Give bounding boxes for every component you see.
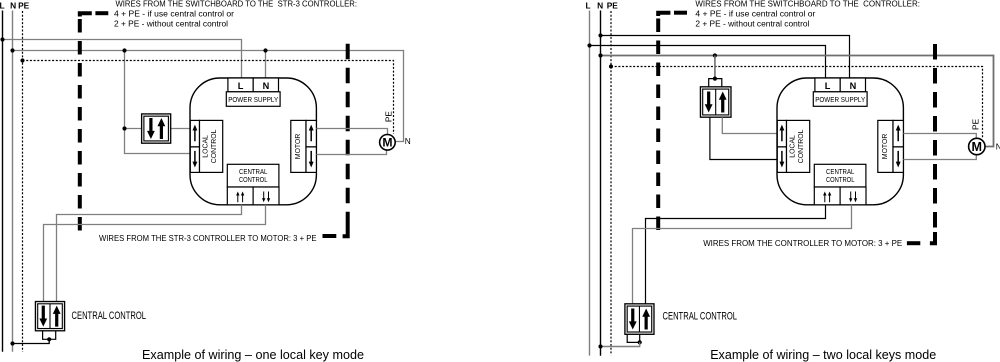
U1 STR-3 LOCAL CONTROL up terminal: [190, 120, 199, 146]
svg-text:2 + PE - without central contr: 2 + PE - without central control: [695, 18, 809, 28]
wire L supply vertical (left): [2, 11, 4, 352]
U1 STR-3 CENTRAL CONTROL up terminal: [227, 187, 253, 205]
motor M1: [380, 135, 396, 151]
svg-text:CONTROL: CONTROL: [211, 129, 218, 163]
U2 MOTOR down terminal: [893, 147, 903, 173]
wire S4 to N (right): [601, 342, 640, 346]
thick dashed bottom dash (right): [907, 241, 920, 245]
U1 STR-3 MOTOR up terminal: [306, 120, 316, 146]
thick dashed legend dash (left): [95, 11, 108, 15]
wire L branch to controller L terminal (right): [590, 46, 826, 79]
U2 CENTRAL CONTROL down terminal: [840, 187, 866, 205]
svg-text:WIRES FROM THE STR-3 CONTROLLE: WIRES FROM THE STR-3 CONTROLLER TO MOTOR…: [99, 233, 317, 243]
svg-text:WIRES FROM THE SWITCHBOARD TO: WIRES FROM THE SWITCHBOARD TO THE STR-3 …: [116, 0, 358, 8]
wire central down to switch (left): [44, 205, 266, 302]
controller U1 STR-3 body: [190, 78, 316, 205]
junction dot PE branch (right): [609, 64, 613, 68]
svg-text:N: N: [850, 81, 857, 91]
wire central up to switch (left): [57, 205, 242, 302]
U2 LOCAL CONTROL down terminal: [777, 147, 786, 173]
switch S3 top tab: [709, 79, 722, 87]
junction dot PE branch (left): [20, 58, 24, 62]
junction dot local keys feed (right): [713, 53, 717, 57]
junction dot local key switch (left): [122, 126, 126, 130]
wire L supply vertical (right): [589, 11, 591, 356]
svg-text:Example of wiring – two local: Example of wiring – two local keys mode: [710, 347, 936, 362]
thick dashed boundary corner top (left): [80, 13, 92, 16]
thick dashed boundary corner bottom (right): [930, 232, 935, 243]
switch S2 bottom tab: [43, 331, 56, 340]
switch S4 central control down key arrow: [629, 309, 637, 330]
svg-text:M: M: [972, 140, 983, 154]
wire S3 up key to up terminal (right): [722, 117, 777, 133]
svg-text:N: N: [405, 136, 411, 146]
wire motor up phase (left): [316, 129, 387, 135]
svg-text:L: L: [825, 81, 831, 91]
wire central down to switch (right): [633, 205, 852, 304]
junction dot N branch (right): [598, 33, 602, 37]
U1 STR-3 LOCAL CONTROL label box: [200, 120, 223, 172]
switch S2 central control up key arrow: [53, 306, 61, 327]
motor M2: [969, 138, 985, 154]
thick dashed boundary vertical left side (left): [78, 19, 82, 233]
wire local key feed drop (left): [124, 51, 126, 129]
switch S3 local keys body: [700, 87, 731, 117]
wire S2 to N (left): [13, 339, 50, 343]
U2 MOTOR label box: [878, 120, 893, 172]
wire motor down phase (left): [316, 150, 386, 154]
wire N branch across to motor N (left): [13, 51, 404, 142]
wire PE supply vertical dotted (left): [22, 11, 24, 352]
wire local key to up terminal (left): [125, 128, 191, 130]
U1 STR-3 terminal L (pin L): [228, 78, 253, 92]
junction dot S4 tab: [638, 340, 642, 344]
wire local keys feed stub (right): [714, 56, 716, 79]
svg-text:LOCAL: LOCAL: [789, 135, 796, 158]
svg-text:CENTRAL CONTROL: CENTRAL CONTROL: [663, 310, 738, 322]
svg-text:PE: PE: [607, 1, 619, 11]
switch S4 central control up key arrow: [642, 309, 650, 330]
switch S4 bottom tab: [627, 334, 640, 342]
svg-text:WIRES FROM THE SWITCHBOARD TO: WIRES FROM THE SWITCHBOARD TO THE CONTRO…: [695, 0, 920, 8]
switch S2 central control body: [35, 302, 64, 331]
switch S2 central control down key arrow: [39, 306, 47, 327]
svg-text:MOTOR: MOTOR: [295, 134, 302, 160]
switch S3 local keys down key arrow: [705, 92, 713, 113]
controller U2 body: [777, 78, 903, 205]
switch S1 local key body: [142, 114, 171, 143]
junction dot N branch (left): [10, 48, 14, 52]
U1 STR-3 CENTRAL CONTROL label box: [227, 164, 279, 187]
U2 MOTOR up terminal: [893, 120, 903, 146]
wire N supply vertical (right): [600, 11, 602, 356]
U2 LOCAL CONTROL up terminal: [777, 120, 786, 146]
svg-text:Example of wiring – one local: Example of wiring – one local key mode: [142, 347, 364, 362]
svg-text:L: L: [238, 81, 244, 91]
svg-text:POWER SUPPLY: POWER SUPPLY: [815, 97, 865, 104]
switch S3 local keys up key arrow: [719, 92, 727, 113]
thick dashed legend dash (right): [674, 11, 687, 15]
wire PE branch dotted to motor (left): [23, 61, 394, 135]
thick dashed boundary vertical right side (right): [933, 44, 937, 232]
svg-text:POWER SUPPLY: POWER SUPPLY: [228, 97, 278, 104]
svg-text:N: N: [996, 142, 1000, 152]
U2 CENTRAL CONTROL label box: [814, 164, 866, 187]
thick dashed bottom dash (left): [323, 234, 337, 238]
svg-text:PE: PE: [970, 118, 980, 130]
svg-text:N: N: [597, 1, 603, 11]
U2 terminal N (pin N): [840, 78, 865, 92]
thick dashed boundary corner bottom (left): [343, 226, 348, 236]
U1 STR-3 POWER SUPPLY label box: [226, 92, 280, 107]
svg-text:CONTROL: CONTROL: [826, 175, 855, 184]
junction dot N return (right): [598, 344, 602, 348]
junction dot local key feed (left): [122, 48, 126, 52]
wire PE supply vertical dotted (right): [610, 11, 612, 355]
junction dot S3 tab: [713, 77, 717, 81]
U2 CENTRAL CONTROL up terminal: [814, 187, 840, 205]
svg-text:L: L: [585, 1, 590, 11]
svg-text:N: N: [263, 81, 270, 91]
junction dot N return (left): [10, 341, 14, 345]
U1 STR-3 MOTOR down terminal: [306, 147, 316, 173]
switch S1 local key down key arrow: [147, 118, 155, 139]
wire central up to switch (right): [646, 205, 826, 304]
junction dot L branch (left): [0, 37, 4, 41]
svg-text:2 + PE - without central contr: 2 + PE - without central control: [114, 18, 228, 28]
svg-text:L: L: [0, 1, 5, 11]
junction dot S2 tab: [47, 337, 51, 341]
wire PE branch dotted to motor (right): [611, 67, 983, 139]
wire N supply vertical (left): [12, 11, 14, 352]
wire motor down phase (right): [903, 155, 976, 160]
svg-text:CENTRAL CONTROL: CENTRAL CONTROL: [72, 310, 147, 322]
thick dashed boundary vertical right side (left): [346, 44, 350, 226]
U2 POWER SUPPLY label box: [813, 92, 867, 107]
U1 STR-3 terminal N (pin N): [253, 78, 278, 92]
wire S3 down key to down terminal (right): [710, 117, 777, 159]
U1 STR-3 LOCAL CONTROL down terminal: [190, 147, 199, 173]
junction dot N second branch (right): [598, 53, 602, 57]
svg-text:M: M: [382, 136, 392, 150]
svg-text:4 + PE - if use central contro: 4 + PE - if use central control or: [695, 8, 815, 18]
wire N second branch to local keys and motor N (right): [601, 56, 994, 147]
U2 terminal L (pin L): [815, 78, 840, 92]
U2 LOCAL CONTROL label box: [787, 120, 810, 172]
wire motor up phase (right): [903, 134, 976, 139]
svg-text:PE: PE: [18, 1, 30, 11]
thick dashed boundary vertical left side (right): [656, 19, 660, 234]
svg-text:PE: PE: [383, 111, 393, 123]
thick dashed boundary corner top (right): [658, 13, 670, 16]
switch S4 central control body: [625, 304, 654, 335]
svg-text:CONTROL: CONTROL: [798, 129, 805, 163]
U1 STR-3 CENTRAL CONTROL down terminal: [253, 187, 279, 205]
wire local key to down terminal (left): [125, 129, 191, 154]
svg-text:LOCAL: LOCAL: [202, 135, 209, 158]
svg-text:CONTROL: CONTROL: [239, 175, 268, 184]
svg-text:4 + PE - if use central contro: 4 + PE - if use central control or: [114, 8, 234, 18]
svg-text:MOTOR: MOTOR: [882, 134, 889, 160]
wire N terminal drop (left): [265, 51, 267, 79]
U1 STR-3 MOTOR label box: [291, 120, 306, 172]
svg-text:N: N: [10, 1, 16, 11]
svg-text:WIRES FROM THE CONTROLLER TO M: WIRES FROM THE CONTROLLER TO MOTOR: 3 + …: [703, 238, 902, 248]
switch S1 local key up key arrow: [157, 118, 165, 139]
junction dot N terminal drop (left): [263, 48, 267, 52]
junction dot L branch (right): [587, 43, 591, 47]
wire L branch to controller L terminal (left): [3, 40, 242, 79]
wire N branch to controller N terminal (right): [601, 36, 850, 79]
